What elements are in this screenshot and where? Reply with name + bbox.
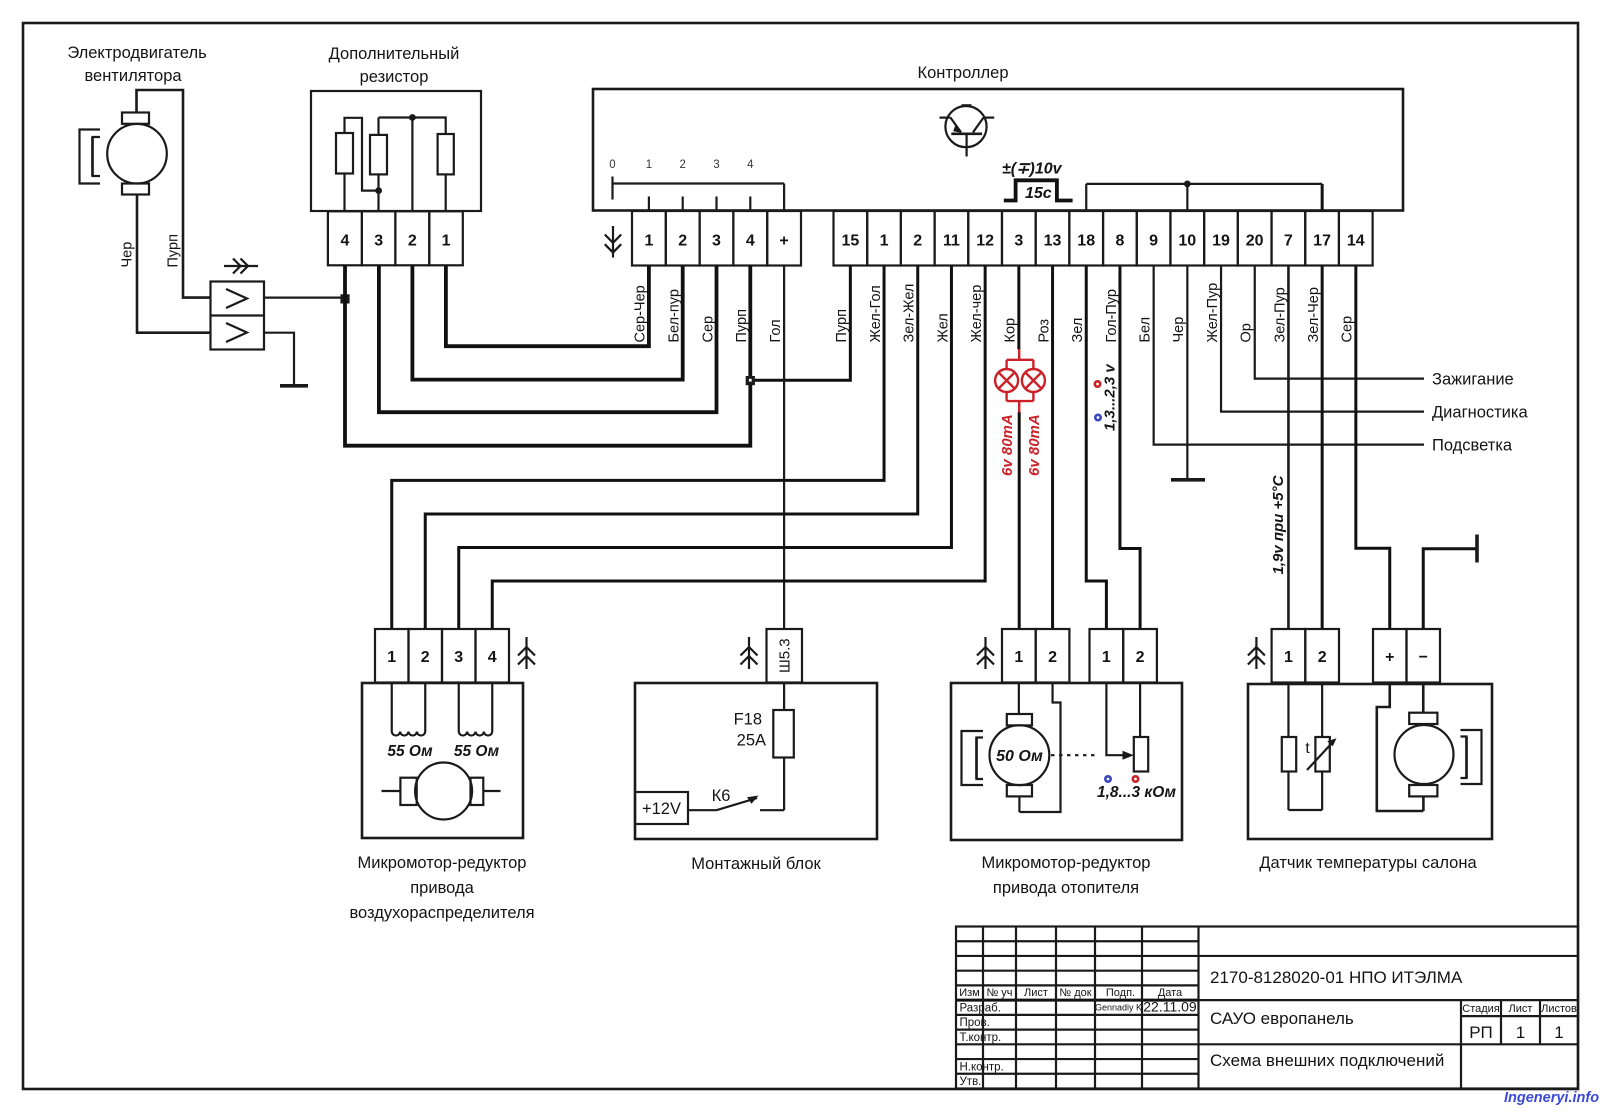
probe dot red [1133,776,1138,781]
svg-text:Н.контр.: Н.контр. [960,1061,1004,1073]
wire: fan motor bottom (Чер) to connector lower pin [137,195,211,333]
heater micromotor box [951,683,1182,840]
svg-text:1: 1 [1014,649,1023,666]
connector arrow (temp sensor) [1255,637,1257,669]
svg-text:55 Ом: 55 Ом [387,743,433,760]
probe dot red [1095,381,1100,386]
fan connector pair symbol (double chevron) [224,265,258,267]
ground (controller pin10) [1171,478,1205,482]
svg-text:Зел-Пур: Зел-Пур [1272,287,1288,342]
svg-text:9: 9 [1149,233,1158,250]
junction dot R1-R2 bottom [375,187,382,194]
air-motor pin 4 [476,629,510,683]
heater pin 2 (2) [1123,629,1157,683]
wire: fan motor top (Пурп) to connector upper pin [137,90,211,298]
heater motor M (50 Ом) [1018,683,1020,715]
svg-text:Диагностика: Диагностика [1432,404,1528,422]
resistor R2 [370,135,387,175]
heater pin 1 (2) [1090,629,1124,683]
svg-text:Сер: Сер [1340,316,1356,343]
wire: R2 top to top bus [377,118,379,135]
svg-text:Стадия: Стадия [1462,1003,1500,1015]
controller pin 7 [1272,211,1306,266]
probe dot blue [1095,415,1100,420]
svg-text:10: 10 [1178,233,1196,250]
wire: controller + (Гол) down to Ш5.3 [783,266,785,630]
svg-text:2: 2 [913,233,922,250]
controller pin 2 (left group) [666,211,700,266]
svg-text:Бел: Бел [1137,317,1153,343]
coil winding 2 (55 Ом) [458,683,460,732]
svg-text:Сер-Чер: Сер-Чер [633,285,649,342]
svg-text:Контроллер: Контроллер [917,64,1008,82]
resistor R1 [336,133,353,174]
svg-text:Роз: Роз [1036,319,1052,343]
svg-text:14: 14 [1347,233,1365,250]
svg-text:1: 1 [1516,1023,1525,1042]
wire: top bus to R3 [379,118,446,135]
fan motor connector X1 (two cells) [211,282,265,350]
resistor pin 2 [395,211,429,265]
svg-text:2: 2 [1318,649,1327,666]
svg-text:±(∓)10v: ±(∓)10v [1002,161,1063,178]
wire: R1 top jog to R2 bottom junction [345,118,379,191]
controller pin 1 (left group) [632,211,666,266]
wire: connector lower pin to ground [264,333,294,385]
svg-text:17: 17 [1313,233,1331,250]
heater motor brush bracket [962,731,984,785]
temperature sensor box [1248,684,1492,839]
svg-text:11: 11 [943,233,960,250]
svg-text:+12V: +12V [642,800,681,818]
wire: resistor pin4 to controller pin4 Пурп [345,265,750,445]
heater pin 2 (1) [1036,629,1070,683]
wire: controller pin14(Сер) to sensor + [1356,266,1390,630]
svg-text:№ док: № док [1059,987,1091,999]
wire: top bus junction down to pin 2 [411,118,413,212]
wire: controller pin19(Жел-Пур) to Диагностика [1221,266,1424,412]
svg-text:4: 4 [488,649,497,666]
svg-text:2: 2 [679,159,685,171]
controller pin 1 [867,211,901,266]
wire: controller pin17(Зел-Чер) to sensor pin2 [1321,266,1324,630]
controller pin 8 [1103,211,1137,266]
svg-text:19: 19 [1212,233,1230,250]
svg-text:50 Ом: 50 Ом [996,748,1043,765]
sensor pin − [1407,629,1441,683]
svg-text:САУО европанель: САУО европанель [1210,1009,1354,1028]
sensor fan motor [1377,683,1424,812]
svg-text:6v 80mA: 6v 80mA [1026,414,1043,476]
controller pin 10 [1170,211,1204,266]
svg-text:Подсветка: Подсветка [1432,437,1513,455]
svg-text:Дополнительный: Дополнительный [329,45,460,63]
svg-text:РП: РП [1469,1023,1493,1042]
air-motor pin 2 [409,629,443,683]
svg-text:13: 13 [1044,233,1062,250]
svg-text:6v 80mA: 6v 80mA [999,414,1016,476]
lamp L2 [1022,369,1045,392]
sensor pin 1 [1272,629,1306,683]
svg-text:25A: 25A [737,732,766,750]
svg-text:1: 1 [1102,649,1111,666]
svg-text:Зел-Жел: Зел-Жел [902,284,918,343]
controller pin 2 [901,211,935,266]
sensor motor brush bracket (right) [1461,730,1482,784]
svg-text:−: − [1419,649,1428,666]
controller connector direction arrow (down) [612,226,614,258]
svg-text:Листов: Листов [1541,1003,1577,1015]
controller pin 17 [1305,211,1339,266]
mounting block box [635,683,877,839]
svg-text:+: + [1385,649,1394,666]
svg-text:15c: 15c [1025,185,1052,202]
svg-text:Подп.: Подп. [1106,987,1135,999]
controller pin 4 (left group) [733,211,767,266]
fuse F18 25A [783,683,785,711]
sensor fixed resistor [1287,683,1289,738]
svg-text:1,3...2,3 v: 1,3...2,3 v [1102,363,1119,431]
svg-text:12: 12 [976,233,994,250]
sensor pin 2 [1305,629,1339,683]
junction: fan wire / resistor pin 4 wire [340,294,349,303]
svg-text:Т.контр.: Т.контр. [960,1032,1002,1044]
svg-text:1: 1 [1554,1023,1563,1042]
svg-text:22.11.09: 22.11.09 [1143,998,1197,1014]
svg-text:Монтажный блок: Монтажный блок [691,855,821,873]
svg-text:7: 7 [1284,233,1293,250]
air-motor pin 1 [375,629,409,683]
svg-text:4: 4 [747,159,754,171]
svg-text:3: 3 [374,233,383,250]
svg-text:0: 0 [609,159,615,171]
svg-text:Схема внешних подключений: Схема внешних подключений [1210,1051,1444,1070]
resistor pin 4 [328,211,362,265]
air distributor micromotor box [362,683,523,838]
svg-text:Сер: Сер [700,316,716,343]
wire: R3 bottom to pin 1 [445,174,447,211]
dashed link motor to pot wiper [1051,754,1099,756]
wire: resistor pin3 to controller pin3 Сер [379,265,717,412]
svg-text:Утв.: Утв. [960,1076,982,1088]
junction: pin4/pin15 [746,376,755,385]
air motor M [382,790,401,792]
probe dot blue [1105,776,1110,781]
svg-text:Ingeneryi.info: Ingeneryi.info [1504,1090,1599,1106]
svg-text:Электродвигатель: Электродвигатель [67,44,206,62]
internal bracket to + pin [783,184,785,212]
svg-text:Микромотор-редуктор: Микромотор-редуктор [982,854,1151,872]
connector arrow (air motor) [525,637,527,669]
wire: controller pin8(Гол-Пур) to heater pin2 (2nd pair) [1120,266,1140,630]
svg-text:1,8...3 кОм: 1,8...3 кОм [1097,784,1176,801]
svg-text:t: t [1305,740,1310,757]
svg-text:1,9v при +5°C: 1,9v при +5°C [1270,474,1287,574]
svg-text:4: 4 [746,233,755,250]
svg-text:Ор: Ор [1239,323,1255,342]
svg-text:1: 1 [387,649,396,666]
controller pin 3 (left group) [700,211,734,266]
wire: heater pin2 loop to motor bottom [1019,683,1060,813]
resistor pin 1 [429,211,463,265]
wire: connector upper pin to resistor pin 4 (junction) [264,297,345,299]
svg-text:Разраб.: Разраб. [960,1002,1001,1014]
connector arrow (heater motor) [984,637,986,669]
+12V source box [635,792,688,824]
title block [956,927,1578,1089]
controller box [593,89,1403,211]
svg-text:Жел: Жел [935,313,951,342]
terminal bar [1475,535,1479,563]
resistor pin 3 [362,211,396,265]
controller pin 9 [1137,211,1171,266]
additional resistor unit box [311,91,481,211]
wire: resistor pin2 to controller pin2 Бел-пур [412,265,682,379]
svg-text:3: 3 [712,233,721,250]
svg-text:1: 1 [646,159,652,171]
wire: R2 bottom to pin 3 [377,174,379,211]
svg-text:Ш5.3: Ш5.3 [777,638,794,673]
wire: controller pin11(Жел) to air-motor pin3 [459,266,952,630]
svg-text:2170-8128020-01 НПО ИТЭЛМА: 2170-8128020-01 НПО ИТЭЛМА [1210,968,1463,987]
svg-text:Gennadiy K: Gennadiy K [1095,1002,1142,1012]
heater pin 1 (1) [1002,629,1036,683]
svg-text:3: 3 [713,159,719,171]
wire: controller pin2(Зел-Жел) to air-motor pin2 [425,266,918,630]
svg-text:3: 3 [454,649,463,666]
svg-text:Пурп: Пурп [834,309,850,342]
wire: controller pin1(Жел-Гол) to air-motor pin1 [392,266,884,630]
svg-text:Жел-чер: Жел-чер [969,285,985,343]
svg-text:2: 2 [678,233,687,250]
controller pin 19 [1204,211,1238,266]
svg-text:Чер: Чер [1171,317,1187,343]
controller pin 13 [1036,211,1070,266]
svg-text:2: 2 [1136,649,1145,666]
svg-text:Бел-пур: Бел-пур [667,289,683,342]
wire: controller pin20(Ор) to Зажигание [1255,266,1424,379]
svg-text:2: 2 [421,649,430,666]
svg-text:Гол: Гол [768,319,784,342]
controller pin 15 [834,211,868,266]
svg-text:вентилятора: вентилятора [84,67,182,85]
svg-text:Зажигание: Зажигание [1432,371,1514,389]
svg-text:+: + [779,233,788,250]
svg-text:F18: F18 [734,711,762,729]
svg-text:Дата: Дата [1158,987,1183,999]
lamp L1 [995,369,1018,392]
transistor (inside controller) [940,105,995,156]
controller pin 14 [1339,211,1373,266]
svg-text:2: 2 [408,233,417,250]
svg-text:Пурп: Пурп [166,234,182,267]
sensor pin + [1373,629,1407,683]
wiper wire from heater pin1 (2nd pair) [1106,683,1125,756]
svg-text:привода отопителя: привода отопителя [993,879,1139,897]
svg-text:3: 3 [1014,233,1023,250]
svg-text:Жел-Гол: Жел-Гол [868,285,884,342]
lamp pair 6v 80mA on Кор wire [1018,349,1020,360]
svg-text:воздухораспределителя: воздухораспределителя [349,904,534,922]
svg-text:К6: К6 [712,787,731,805]
wire: controller pin12(Жел-чер) to air-motor pin4 [492,266,985,630]
controller pin 20 [1238,211,1272,266]
svg-text:Гол-Пур: Гол-Пур [1104,289,1120,343]
svg-text:20: 20 [1246,233,1264,250]
controller internal bus pins 18-10-17 [1086,183,1322,185]
svg-text:Лист: Лист [1024,987,1048,999]
wire: controller pin18(Зел) to heater pin1 (2nd pair) [1086,266,1106,630]
svg-text:Кор: Кор [1003,318,1019,343]
svg-text:№ уч: № уч [986,987,1012,999]
wire: lamps to heater pin1 [1018,412,1021,629]
svg-text:Лист: Лист [1509,1003,1533,1015]
wire: resistor pin1 to controller pin1 Сер-Чер [446,265,649,346]
svg-text:Чер: Чер [120,242,136,268]
svg-text:резистор: резистор [360,68,429,86]
wire: controller pin3(Кор) down to lamps [1017,266,1020,350]
air-motor pin 3 [442,629,476,683]
svg-text:Жел-Пур: Жел-Пур [1205,283,1221,343]
wire: controller pin10(Чер) to ground [1186,266,1188,479]
resistor R3 [438,134,454,174]
ground (fan connector) [280,384,308,388]
svg-text:1: 1 [880,233,889,250]
fan motor brush bracket [80,130,101,184]
svg-text:Зел: Зел [1070,318,1086,343]
coil winding 1 (55 Ом) [391,683,393,732]
svg-text:4: 4 [340,233,349,250]
wire: controller pin13(Роз) to heater pin2 [1051,266,1054,630]
wire: controller pin15 Пурп branch to pin4 wire [750,266,850,381]
potentiometer 1,8...3 кОм [1134,737,1148,772]
svg-text:8: 8 [1115,233,1124,250]
svg-text:Пров.: Пров. [960,1017,990,1029]
svg-text:1: 1 [1284,649,1293,666]
svg-text:2: 2 [1048,649,1057,666]
controller pin 12 [968,211,1002,266]
svg-text:Датчик температуры салона: Датчик температуры салона [1259,854,1477,872]
svg-text:Микромотор-редуктор: Микромотор-редуктор [358,854,527,872]
wire: R1 bottom to pin 4 [343,174,345,212]
controller pin 11 [935,211,969,266]
svg-text:привода: привода [410,879,474,897]
controller pin 3 [1002,211,1036,266]
controller pin + (left group) [767,211,801,266]
connector arrow (mounting block) [748,637,750,669]
svg-text:Изм: Изм [959,987,980,999]
wire: sensor - to terminal [1423,549,1477,629]
wire: controller pin9(Бел) to Подсветка [1154,266,1424,445]
svg-text:1: 1 [442,233,451,250]
wire: controller pin7(Зел-Пур) to sensor pin1 [1287,266,1290,630]
svg-text:15: 15 [841,233,859,250]
junction dot on top bus (pin 2 wire) [409,114,416,121]
svg-text:55 Ом: 55 Ом [454,743,500,760]
electric fan motor M1 [107,124,167,184]
svg-text:Зел-Чер: Зел-Чер [1306,287,1322,342]
svg-text:18: 18 [1077,233,1095,250]
sensor thermistor t [1321,683,1323,738]
svg-text:1: 1 [644,233,653,250]
connector Ш5.3 [767,629,803,683]
controller pin 18 [1069,211,1103,266]
svg-text:Пурп: Пурп [734,309,750,342]
